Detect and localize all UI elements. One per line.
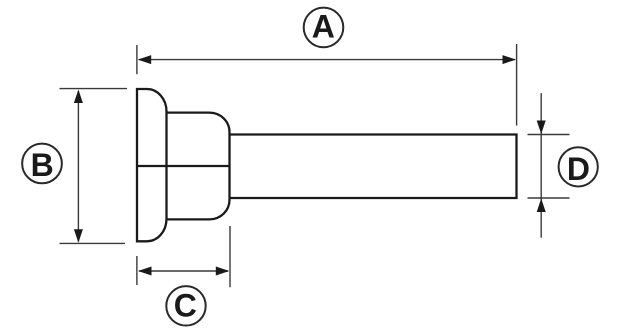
svg-text:D: D: [567, 151, 590, 187]
dim A line: [139, 59, 515, 61]
label circle D: [559, 147, 598, 186]
dim C right arrowhead: [216, 267, 230, 276]
svg-text:C: C: [174, 287, 197, 323]
dim D down arrowhead: [537, 121, 546, 135]
dim C left arrowhead: [138, 267, 152, 276]
label circle A: [304, 8, 344, 48]
dim B top arrowhead: [74, 90, 83, 104]
svg-text:B: B: [31, 147, 54, 183]
center line: [136, 165, 231, 167]
dim A left arrowhead: [138, 55, 152, 64]
bolt shank: [230, 135, 517, 199]
dim C left extension line: [136, 256, 138, 285]
dim A left extension line: [136, 45, 138, 74]
dim B bottom extension line: [60, 242, 126, 244]
svg-text:A: A: [312, 9, 335, 45]
dim A right extension line: [516, 44, 518, 126]
bolt collar: [166, 113, 230, 220]
dim D vertical line: [540, 93, 542, 238]
dim D bottom tick: [528, 197, 570, 199]
dim A right arrowhead: [503, 55, 517, 64]
dim D up arrowhead: [537, 199, 546, 213]
dim C line: [139, 270, 228, 272]
dim D top tick: [528, 134, 570, 136]
dim B top extension line: [60, 88, 128, 90]
dim B bottom arrowhead: [74, 229, 83, 243]
dim B line: [77, 91, 79, 242]
bolt head: [137, 89, 167, 241]
dim C right extension line: [229, 226, 231, 287]
label circle C: [166, 286, 205, 325]
label circle B: [22, 144, 62, 184]
